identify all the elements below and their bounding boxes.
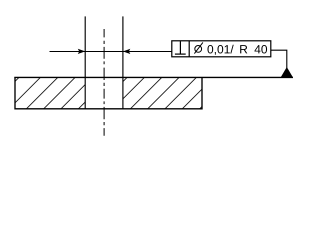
restricted length value 40 xyxy=(254,45,267,53)
diameter symbol xyxy=(194,42,203,53)
slot left edge line xyxy=(84,16,86,108)
arrowhead left (pointing right) xyxy=(78,49,85,54)
perpendicularity symbol xyxy=(175,41,186,54)
arrowhead right (pointing left) xyxy=(123,49,130,54)
part cross-section outline xyxy=(15,77,202,108)
part top surface line with datum extension xyxy=(14,76,293,78)
datum letter R xyxy=(240,45,247,53)
hatch right block xyxy=(94,76,233,111)
feature control frame box xyxy=(172,41,271,57)
feature control frame divider xyxy=(188,41,190,57)
slot right edge line xyxy=(122,16,124,108)
hatch left block xyxy=(7,76,112,111)
dimension line xyxy=(50,51,172,53)
leader from frame to datum triangle xyxy=(271,50,287,68)
centerline xyxy=(103,29,105,136)
tolerance value text 0,01/ xyxy=(207,45,233,55)
datum triangle (filled) xyxy=(281,67,293,78)
